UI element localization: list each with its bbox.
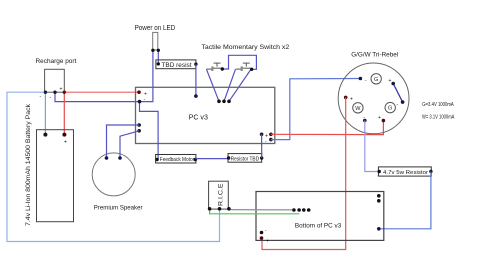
node: PC v3 power in red (137, 90, 141, 94)
LED G right (385, 102, 395, 112)
node: right G plus pin (382, 119, 386, 123)
wire: blue resistor TBD up to PC v3 (261, 134, 263, 158)
wire: gray R.I.C.E to bottom PC v3 (229, 209, 292, 211)
wire: light blue net from recharge port left pin, left edge and bottom to R.I.C.E (7, 92, 220, 241)
node: RICE pin right (227, 207, 231, 211)
tactile switch S2 (236, 63, 252, 71)
svg-text:Resistor TBD: Resistor TBD (231, 156, 260, 162)
node: switch1 output (221, 67, 224, 70)
battery pack 7.4v Li-Ion (37, 130, 74, 222)
wire: blue feedback motor to resistor TBD (195, 158, 228, 160)
G/G/W Tri-Rebel LED module (338, 63, 409, 134)
wire: blue PC v3 right to Tri-Rebel (271, 79, 360, 140)
wire: blue loop between switch outputs (222, 55, 256, 69)
LED W left (353, 103, 363, 113)
wire: blue 4.7v resistor to bottom of PC v3 (379, 172, 431, 229)
node: switch pins on PC v3 (217, 100, 221, 104)
resistor TBD resist (156, 60, 196, 69)
node: resistor TBD left pin (227, 156, 230, 159)
node: 4.7v resistor right pin (429, 170, 432, 173)
svg-text:G: G (388, 106, 392, 112)
svg-text:G=3.4V 1000mA: G=3.4V 1000mA (422, 102, 454, 108)
node: PC v3 right pin to resistor TBD (260, 133, 264, 137)
node: PC v3 top pin (TBD resist) (194, 94, 198, 98)
svg-text:+: + (64, 139, 67, 145)
PC v3 main board (136, 87, 275, 143)
svg-text:Premium Speaker: Premium Speaker (94, 205, 143, 212)
node: PC v3 power in blue (138, 100, 142, 104)
node: recharge pin right (63, 91, 66, 94)
svg-text:G: G (374, 77, 378, 83)
node: PC v3 right red out (269, 133, 273, 137)
node: switch2 output (250, 68, 253, 71)
svg-text:W= 3.1V 1000mA: W= 3.1V 1000mA (422, 115, 455, 121)
wire: red battery positive to recharge (63, 92, 65, 134)
svg-text:PC v3: PC v3 (189, 113, 208, 122)
wire: switch2 diagonal left to PC v3 (224, 69, 236, 101)
feedback motor box (156, 155, 196, 164)
svg-text:4.7v 5w Resistor: 4.7v 5w Resistor (383, 170, 428, 176)
node: RICE pin middle (218, 207, 222, 211)
node: TBD resist right pin (194, 62, 197, 65)
power on LED (153, 32, 158, 50)
wire: blue recharge middle pin to PC v3 (55, 92, 140, 101)
node: 4.7v resistor left pin (378, 170, 381, 173)
4.7v 5w resistor box (378, 167, 431, 176)
svg-text:7.4v Li-Ion 800mAh 14500 Batte: 7.4v Li-Ion 800mAh 14500 Battery Pack (25, 103, 32, 226)
node: LED pin right (157, 49, 160, 52)
node: W minus pin (363, 119, 367, 123)
svg-text:TBD resist: TBD resist (162, 62, 192, 69)
wire: blue battery negative to recharge (44, 92, 46, 134)
node: feedback motor right pin (194, 158, 197, 161)
node: battery terminal plus (62, 133, 66, 137)
wire: blue inside PC v3 down to feedback motor (140, 102, 159, 160)
node: bottom PC pins left (260, 231, 264, 235)
svg-text:+: + (350, 97, 353, 103)
wire: blue TBD resist to PC v3 top (195, 64, 197, 96)
node: battery terminal minus (43, 133, 47, 137)
LED G top (371, 74, 381, 84)
node: recharge pin left (44, 91, 47, 94)
node: speaker terminal right (118, 156, 122, 160)
svg-text:+: + (266, 239, 269, 245)
wire: red recharge right pin to PC v3 (64, 91, 139, 93)
recharge port (45, 69, 65, 92)
wire: blue LED cathode down to PC v3 (140, 50, 153, 101)
node: diagonal bottom pin (401, 100, 405, 104)
node: PC v3 speaker pins (137, 123, 141, 127)
svg-text:Recharge port: Recharge port (36, 58, 77, 65)
premium speaker (92, 153, 135, 196)
svg-text:W: W (355, 106, 361, 112)
wire: switch2 diagonal right to PC v3 (229, 69, 251, 101)
wire: blue LED anode down to TBD resist (157, 50, 159, 64)
node: RICE pin left (208, 207, 212, 211)
tactile switch S1 (207, 63, 223, 71)
resistor TBD box (228, 154, 262, 163)
svg-text:+: + (60, 87, 63, 93)
node: resistor TBD right pin (260, 156, 263, 159)
wire: lavender W minus down to 4.7v resistor (365, 121, 379, 172)
wire: navy diagonal link G+ to G- (393, 84, 402, 103)
node: recharge pin middle (53, 91, 56, 94)
node: diagonal top pin (391, 82, 395, 86)
bottom of PC v3 board (256, 192, 384, 241)
node: 4 pins row inside bottom PC (292, 208, 296, 212)
node: W plus pin (344, 96, 348, 100)
wire: red W plus down and around to bottom of PC v3 (262, 97, 346, 249)
node: bottom PC pins right top (377, 194, 381, 198)
svg-text:+: + (378, 115, 381, 121)
node: speaker terminal left (105, 156, 109, 160)
svg-text:+: + (389, 78, 392, 84)
wire: switch1 diagonal to PC v3 (207, 69, 220, 101)
svg-text:Bottom of PC v3: Bottom of PC v3 (295, 222, 342, 229)
wire: red PC v3 right to Tri-Rebel plus (271, 121, 384, 135)
node: feedback motor left pin (155, 158, 158, 161)
wire: green R.I.C.E to bottom PC v3 (210, 209, 300, 214)
node: PC v3 right blue out (269, 138, 273, 142)
node: top G minus pin (359, 77, 363, 81)
node: LED pin left (151, 49, 154, 52)
R.I.C.E module (209, 181, 229, 209)
node: TBD resist left pin (157, 62, 160, 65)
svg-text:R.I.C.E: R.I.C.E (218, 183, 225, 206)
svg-text:G/G/W Tri-Rebel: G/G/W Tri-Rebel (351, 52, 399, 59)
node: bottom PC pin right lower (377, 227, 381, 231)
wire: speaker right to PC v3 (120, 131, 139, 158)
svg-text:Feedback Motor: Feedback Motor (160, 157, 195, 163)
svg-text:Power on LED: Power on LED (135, 25, 176, 32)
svg-text:Tactile Momentary Switch x2: Tactile Momentary Switch x2 (201, 44, 289, 51)
wire: speaker left to PC v3 (107, 125, 140, 158)
